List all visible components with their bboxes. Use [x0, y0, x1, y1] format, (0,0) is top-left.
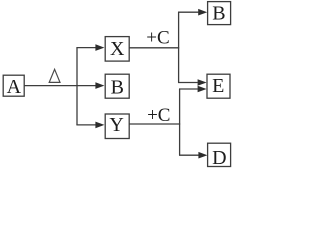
svg-text:A: A — [7, 76, 22, 98]
svg-text:E: E — [212, 75, 224, 97]
wire to E upper with arrowhead — [178, 79, 207, 86]
box E — [207, 74, 230, 98]
svg-text:Y: Y — [109, 114, 123, 136]
wire to top B with arrowhead — [178, 9, 207, 16]
svg-text:B: B — [111, 76, 124, 98]
wire to D with arrowhead — [179, 152, 207, 159]
right branch vertical wire (from X) — [178, 12, 180, 82]
svg-text:B: B — [212, 2, 225, 24]
wire Y to right branch — [129, 123, 180, 125]
left branch vertical wire — [76, 48, 78, 125]
box A — [3, 75, 24, 98]
box D — [208, 143, 231, 169]
wire branch to Y with arrowhead — [76, 122, 104, 129]
svg-text:+C: +C — [146, 28, 169, 49]
wire X to right branch — [129, 47, 179, 49]
svg-text:X: X — [110, 38, 125, 60]
svg-text:+C: +C — [147, 105, 170, 126]
svg-text:D: D — [212, 147, 226, 169]
right branch vertical wire (from Y) — [179, 89, 181, 155]
wire to E lower with arrowhead — [179, 86, 207, 93]
wire A to B with arrowhead — [24, 82, 104, 89]
box B top right — [208, 2, 231, 25]
delta (triangle) label — [49, 69, 60, 82]
box Y — [105, 114, 129, 139]
box X — [105, 37, 129, 62]
box B middle — [105, 74, 129, 98]
wire branch to X with arrowhead — [76, 44, 104, 51]
